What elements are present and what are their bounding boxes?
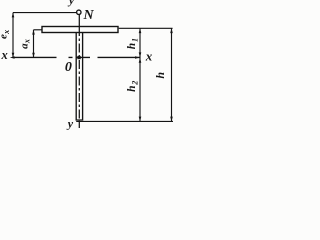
svg-text:N: N <box>83 8 95 23</box>
svg-text:h: h <box>153 72 167 79</box>
y-axis (vertical centerline, dash-dot) <box>78 15 80 27</box>
flange (top horizontal bar of T-section) <box>42 27 118 33</box>
dimension line a_x <box>33 30 35 58</box>
svg-text:ex: ex <box>0 30 11 39</box>
svg-text:x: x <box>1 48 8 62</box>
svg-text:x: x <box>145 49 153 64</box>
svg-text:0: 0 <box>65 60 72 75</box>
dimension line h2 <box>139 58 141 122</box>
dimension line h <box>171 28 173 121</box>
web (vertical bar of T-section) <box>76 33 82 121</box>
x-axis (horizontal centerline, dash-dot) <box>13 56 140 58</box>
extension line from e_x to point N <box>13 12 77 14</box>
x-axis right arrow <box>135 56 140 59</box>
origin centroid marker (filled square) <box>77 56 80 59</box>
svg-text:y: y <box>66 117 74 131</box>
top-right extension line (flange to h) <box>119 27 173 29</box>
x-axis left arrow <box>10 56 15 59</box>
dimension line h1 <box>139 28 141 57</box>
svg-text:y: y <box>67 0 75 7</box>
dimension line e_x <box>12 13 14 58</box>
extension line from a_x to flange left <box>34 29 43 31</box>
bottom extension line (web bottom to h) <box>76 120 173 122</box>
point N marker (small circle) <box>77 10 81 14</box>
